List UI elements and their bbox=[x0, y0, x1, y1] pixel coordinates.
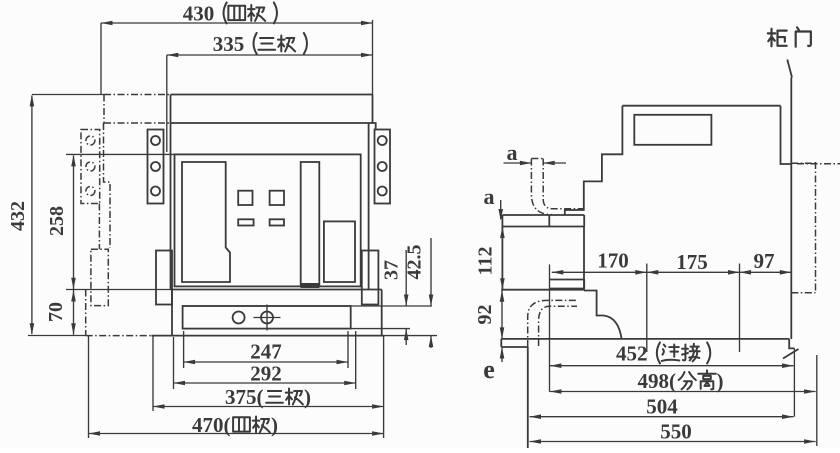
svg-text:258: 258 bbox=[46, 206, 68, 236]
base top extension line bbox=[183, 305, 432, 307]
dim 550 bbox=[530, 441, 816, 443]
phantom cradle bottom bbox=[86, 335, 152, 337]
arc-chamber bottom line bbox=[171, 122, 373, 124]
dim 70 line bbox=[73, 290, 75, 335]
dim 258 line bbox=[73, 156, 75, 290]
phantom lower busbar bbox=[528, 300, 577, 347]
svg-text:97: 97 bbox=[754, 249, 775, 273]
side right top edge bbox=[781, 106, 792, 164]
left rail bbox=[156, 251, 172, 305]
handle recess bbox=[634, 115, 711, 145]
phantom 4th-pole left edge upper bbox=[103, 95, 105, 124]
dim chain 170 175 97 bbox=[552, 271, 792, 273]
button square left bbox=[238, 191, 252, 205]
svg-text:a: a bbox=[484, 184, 495, 209]
cradle left edge bbox=[171, 290, 173, 336]
side left stepped profile bbox=[565, 106, 623, 215]
side lower step and curve bbox=[584, 291, 622, 339]
svg-text:): ) bbox=[304, 385, 311, 409]
svg-text:112: 112 bbox=[475, 247, 497, 276]
body right edge upper bbox=[372, 95, 374, 124]
side body right edge bbox=[583, 227, 585, 291]
svg-text:335: 335 bbox=[213, 32, 245, 56]
extension line right 550/498 bbox=[816, 355, 818, 446]
mounting plane vertical bbox=[527, 347, 529, 448]
button square right bbox=[270, 191, 284, 205]
cradle rear corner bbox=[789, 339, 794, 349]
right rail bbox=[362, 251, 379, 305]
dim 292 bbox=[173, 337, 175, 389]
dim 92 bbox=[501, 290, 503, 339]
escutcheon plate bbox=[182, 162, 230, 282]
dim 430/335 right extension line bbox=[372, 20, 374, 95]
front panel bbox=[175, 154, 361, 286]
base plate bbox=[183, 306, 351, 329]
svg-text:470(: 470( bbox=[192, 413, 231, 437]
body top edge bbox=[171, 94, 373, 96]
extension line x549 bbox=[549, 264, 551, 391]
dim a left bbox=[500, 200, 502, 219]
cradle bottom edge bbox=[151, 335, 383, 337]
dim 470 four-pole bbox=[88, 336, 90, 438]
svg-text:42.5: 42.5 bbox=[404, 245, 426, 280]
dim 335 left extension line bbox=[166, 55, 168, 152]
cradle bottom line side view bbox=[501, 338, 789, 340]
phantom 4th-pole left profile bbox=[104, 123, 111, 248]
left bracket hole 1 bbox=[151, 136, 160, 145]
dim 452 connected bbox=[550, 365, 794, 367]
phantom upper busbar bbox=[531, 158, 543, 160]
dim 112 bbox=[500, 227, 505, 239]
side body left edge bbox=[501, 227, 503, 290]
svg-text:504: 504 bbox=[646, 395, 678, 419]
phantom 4th-pole top edge bbox=[104, 94, 171, 96]
svg-text:): ) bbox=[271, 413, 278, 437]
dim 247 bbox=[183, 331, 185, 368]
dim 258 top extension / panel top bbox=[66, 153, 175, 155]
dim 504 bbox=[530, 416, 794, 418]
svg-text:170: 170 bbox=[597, 249, 629, 273]
phantom bracket hole 1 bbox=[86, 136, 95, 145]
svg-text:432: 432 bbox=[7, 201, 29, 231]
cradle front lower plate bbox=[501, 346, 528, 348]
cradle right edge bbox=[381, 290, 383, 336]
dim 375 three-pole bbox=[152, 336, 154, 411]
tall handle slot bbox=[301, 162, 320, 286]
dim 430 four-pole: line bbox=[101, 22, 373, 24]
door leader tick bbox=[787, 60, 792, 78]
svg-text:175: 175 bbox=[676, 250, 708, 274]
dim 37 bbox=[405, 250, 407, 306]
phantom 4th-pole chamber line bbox=[104, 122, 171, 124]
svg-text:375(: 375( bbox=[225, 385, 264, 409]
side top edge bbox=[622, 105, 780, 107]
left mounting bracket bbox=[148, 130, 164, 204]
right bracket hole 2 bbox=[378, 162, 387, 171]
door plane dash-dot bbox=[797, 163, 840, 165]
small window left bbox=[238, 219, 253, 225]
svg-text:550: 550 bbox=[660, 420, 692, 444]
right mounting bracket bbox=[375, 130, 391, 204]
svg-text:92: 92 bbox=[474, 305, 496, 325]
svg-text:): ) bbox=[717, 369, 724, 393]
body right edge lower bbox=[368, 123, 370, 290]
left bracket hole 2 bbox=[151, 162, 160, 171]
dim 432 line bbox=[31, 96, 33, 335]
dim 498 separated bbox=[550, 391, 816, 393]
svg-text:292: 292 bbox=[250, 362, 282, 386]
dim 432 bottom extension bbox=[28, 335, 86, 337]
svg-text:e: e bbox=[483, 355, 495, 384]
svg-text:70: 70 bbox=[45, 302, 67, 322]
svg-text:452: 452 bbox=[616, 342, 648, 366]
phantom bracket bbox=[81, 130, 100, 204]
phantom bracket hole 2 bbox=[86, 162, 95, 171]
base plate crosshair hole bbox=[261, 312, 273, 324]
extension line right 504/452 bbox=[793, 348, 795, 416]
svg-text:430: 430 bbox=[183, 2, 215, 26]
tall slot dark base bbox=[301, 283, 320, 288]
dim a top bbox=[504, 162, 532, 164]
phantom 4th-pole inner edge bbox=[98, 204, 100, 250]
svg-text:37: 37 bbox=[381, 260, 403, 280]
side body bottom line bbox=[501, 289, 584, 291]
base plate hole bbox=[233, 312, 245, 324]
dim 432 top extension bbox=[32, 94, 104, 96]
dim 335 three-pole: line bbox=[167, 54, 373, 56]
dim 70 bottom extension bbox=[66, 289, 171, 291]
svg-text:a: a bbox=[507, 140, 518, 165]
phantom bracket hole 3 bbox=[86, 187, 95, 196]
body bottom line bbox=[171, 289, 382, 291]
dim e bbox=[501, 347, 503, 362]
phantom cradle left edge bbox=[85, 290, 87, 336]
phantom drawn-out position bbox=[815, 162, 817, 293]
label 柜门 bbox=[768, 29, 787, 46]
body left edge bbox=[170, 95, 172, 290]
middle rear terminal pad bbox=[549, 279, 584, 281]
small window right bbox=[270, 219, 284, 225]
cradle bottom extension line bbox=[384, 335, 438, 337]
cabinet door line bbox=[790, 78, 792, 340]
bracket connector step bbox=[373, 123, 376, 130]
upper rear terminal pad bbox=[502, 214, 584, 216]
dim 42.5 bbox=[430, 238, 432, 306]
right bracket hole 3 bbox=[378, 187, 387, 196]
left bracket hole 3 bbox=[151, 187, 160, 196]
phantom rail bbox=[91, 249, 108, 305]
right cover plate bbox=[324, 221, 355, 282]
svg-text:247: 247 bbox=[250, 340, 282, 364]
dim 430 left extension line bbox=[100, 23, 102, 95]
base bottom extension line bbox=[351, 328, 410, 330]
svg-text:498(: 498( bbox=[638, 369, 677, 393]
right bracket hole 1 bbox=[378, 136, 387, 145]
